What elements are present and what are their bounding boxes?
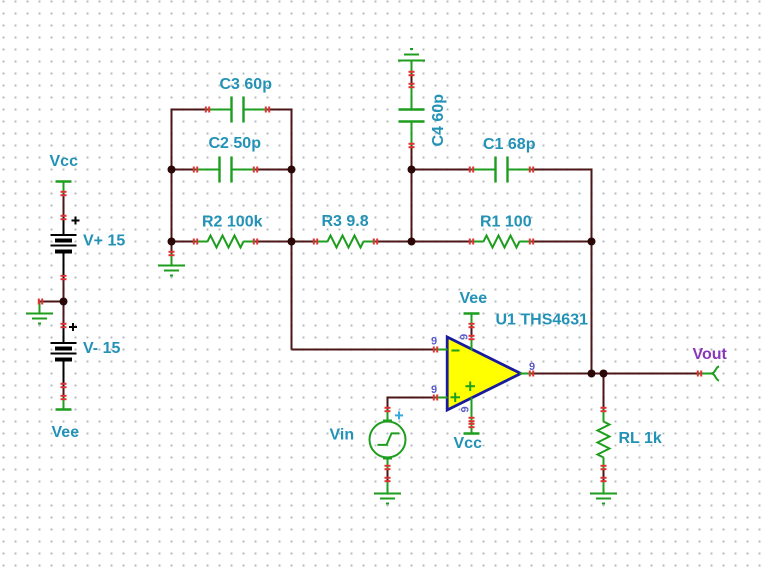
svg-text:C3 60p: C3 60p xyxy=(220,76,273,93)
svg-text:9: 9 xyxy=(459,334,471,340)
ground G4 (under Vin) xyxy=(374,482,401,504)
wire R3 right xyxy=(376,241,412,243)
resistor R3 xyxy=(316,236,376,248)
power jumper Vee (left bottom) xyxy=(56,398,72,410)
marker RL pin2 xyxy=(601,465,607,467)
marker op-amp non-inverting pin xyxy=(433,395,435,401)
svg-text:9: 9 xyxy=(431,336,437,348)
marker R2 pin1 xyxy=(193,239,195,245)
capacitor C2 xyxy=(196,157,256,183)
junction node C4 / R3-R1 xyxy=(408,238,416,246)
wire R1 left xyxy=(412,241,472,243)
svg-text:RL 1k: RL 1k xyxy=(619,430,662,447)
svg-text:Vout: Vout xyxy=(693,346,728,363)
op-amp plus sign (input) xyxy=(451,393,461,402)
marker op-amp V+ power pin xyxy=(469,417,475,419)
wire inverting input xyxy=(292,349,436,351)
svg-text:V+ 15: V+ 15 xyxy=(83,233,125,250)
marker op-amp V- power pin xyxy=(469,335,475,337)
marker V+ pin1 xyxy=(61,215,67,217)
marker R1 pin2 xyxy=(529,239,531,245)
wire C4 pin2 down to R row xyxy=(411,146,413,242)
marker op-amp inverting pin xyxy=(433,347,435,353)
marker C1 pin2 xyxy=(529,167,531,173)
wire C3 right xyxy=(268,109,293,111)
marker ground G5 pin xyxy=(601,477,607,479)
wire C2 right xyxy=(256,169,292,171)
marker Vin pin2 xyxy=(385,465,391,467)
ground G3 (top, above C4, pointing up) xyxy=(398,49,425,74)
marker C4 pin1 xyxy=(409,83,415,85)
junction node mid-vert / C2 xyxy=(288,166,296,174)
svg-text:9: 9 xyxy=(460,406,472,412)
wire left vertical xyxy=(171,109,173,242)
marker Vin pin1 xyxy=(385,407,391,409)
wire R1 right xyxy=(532,241,592,243)
marker RL pin1 xyxy=(601,407,607,409)
power jumper Vcc (left) xyxy=(56,182,72,194)
ground G5 (under RL) xyxy=(590,482,617,504)
marker Vcc jumper pin xyxy=(61,191,67,193)
Vin plus sign (cyan) xyxy=(395,411,403,419)
capacitor C3 xyxy=(208,97,268,123)
junction node output / feedback xyxy=(588,370,596,378)
marker V- pin1 xyxy=(61,323,67,325)
svg-text:C1 68p: C1 68p xyxy=(483,136,536,153)
svg-text:Vcc: Vcc xyxy=(50,153,79,170)
wire Vcc jumper to V+ pin1 xyxy=(63,194,65,218)
battery V- 15 xyxy=(51,323,78,386)
junction node left-vert / C2 xyxy=(168,166,176,174)
svg-text:Vin: Vin xyxy=(330,427,355,444)
resistor R2 xyxy=(196,236,256,248)
wire Vee jumper to op-amp V- pin xyxy=(471,326,473,338)
wire non-inverting input xyxy=(388,397,436,399)
svg-text:V- 15: V- 15 xyxy=(83,340,120,357)
marker op-amp Vcc jumper pin xyxy=(469,423,475,425)
ground G2 (under R2 left node) xyxy=(158,254,185,276)
svg-text:Vcc: Vcc xyxy=(454,435,483,452)
wire C1 right xyxy=(532,169,593,171)
junction node output / RL xyxy=(600,370,608,378)
marker ground G4 pin xyxy=(385,477,391,479)
marker Vee jumper pin xyxy=(61,395,67,397)
marker R1 pin1 xyxy=(469,239,471,245)
svg-text:R3 9.8: R3 9.8 xyxy=(322,213,369,230)
marker ground G2 pin xyxy=(169,251,175,253)
svg-text:R1 100: R1 100 xyxy=(480,214,532,231)
wire node to ground G2 xyxy=(171,242,173,254)
wire output row xyxy=(532,373,700,375)
marker C2 pin1 xyxy=(193,167,195,173)
marker op-amp output pin xyxy=(529,371,531,377)
ground G1 (left of battery node) xyxy=(26,302,53,324)
svg-text:Vee: Vee xyxy=(460,290,488,307)
marker C3 pin1 xyxy=(205,107,207,113)
wire C2 left xyxy=(172,169,196,171)
svg-text:9: 9 xyxy=(529,361,535,373)
marker Vout terminal pin xyxy=(697,371,699,377)
pin markers (red) xyxy=(39,72,701,481)
source Vin (circle symbol) xyxy=(370,410,406,470)
marker op-amp Vee jumper pin xyxy=(469,323,475,325)
wire right vertical xyxy=(591,169,593,374)
marker R3 pin2 xyxy=(373,239,375,245)
marker R2 pin2 xyxy=(253,239,255,245)
capacitor C1 xyxy=(472,157,532,183)
op-amp input/output pin stubs xyxy=(436,339,532,422)
wire middle vertical feedback xyxy=(291,109,293,350)
wire R3 left xyxy=(292,241,316,243)
op-amp Vcc power jumper xyxy=(464,422,480,434)
wire C3 left xyxy=(171,109,208,111)
wire R2 left xyxy=(172,241,196,243)
wire R2 right xyxy=(256,241,292,243)
marker C4 ground pin xyxy=(409,71,415,73)
capacitor C4 (vertical) xyxy=(399,86,425,146)
marker C4 pin2 xyxy=(409,143,415,145)
op-amp Vee power jumper xyxy=(464,314,480,326)
svg-text:9: 9 xyxy=(431,384,437,396)
svg-text:Vee: Vee xyxy=(52,424,80,441)
resistor RL (vertical) xyxy=(598,410,610,470)
marker V+ pin2 xyxy=(61,275,67,277)
output terminal Vout xyxy=(700,366,720,380)
wire V- pin2 to Vee jumper xyxy=(63,386,65,398)
svg-text:U1 THS4631: U1 THS4631 xyxy=(496,312,589,329)
junction node mid-vert / R2-R3 xyxy=(288,238,296,246)
wire node to RL xyxy=(603,374,605,410)
battery V+ 15 xyxy=(51,217,80,278)
resistor R1 xyxy=(472,236,532,248)
junction node R1 / right vertical xyxy=(588,238,596,246)
marker R3 pin1 xyxy=(313,239,315,245)
wire node to ground G1 xyxy=(40,301,64,303)
junction node battery xyxy=(60,298,68,306)
junction node C4 / C1 xyxy=(408,166,416,174)
marker C1 pin1 xyxy=(469,167,471,173)
marker V- pin2 xyxy=(61,383,67,385)
svg-text:C2 50p: C2 50p xyxy=(209,135,262,152)
marker C2 pin2 xyxy=(253,167,255,173)
wire Vin to ground G4 xyxy=(387,470,389,482)
marker C3 pin2 xyxy=(265,107,267,113)
svg-text:R2 100k: R2 100k xyxy=(202,214,263,231)
svg-text:C4 60p: C4 60p xyxy=(430,94,447,147)
op-amp U1 triangle xyxy=(447,337,521,410)
wire C1 left xyxy=(412,169,472,171)
wire RL to ground G5 xyxy=(603,470,605,482)
marker ground G1 pin xyxy=(38,299,40,305)
wire V+ pin2 to V- pin1 through node xyxy=(63,278,65,326)
wire down to Vin xyxy=(387,397,389,410)
op-amp minus sign xyxy=(452,350,460,352)
junction node left-vert / R2 xyxy=(168,238,176,246)
wire ground G3 to C4 pin1 xyxy=(411,74,413,86)
op-amp plus sign (supply) xyxy=(466,382,476,392)
